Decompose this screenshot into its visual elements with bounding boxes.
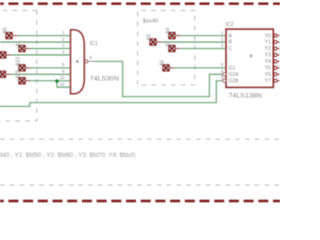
svg-text:11: 11 xyxy=(60,75,65,80)
connector cross A4 xyxy=(169,33,175,39)
IC2 74LS138N box xyxy=(226,29,273,87)
svg-text:Y3: Y3 xyxy=(265,53,271,59)
svg-text:A15: A15 xyxy=(16,70,22,79)
svg-text:Y0: Y0 xyxy=(265,33,271,39)
wire from left edge to IC2 G2B xyxy=(0,81,223,107)
frame border top (dark red dashed) xyxy=(0,3,280,5)
IC2 right pin names Y0-Y7 xyxy=(265,33,271,84)
IC2 origin cross xyxy=(249,54,252,57)
IC2 left pin names xyxy=(229,33,240,84)
svg-text:$xx40: $xx40 xyxy=(143,18,158,24)
module frame box 2 (gray dashed, right group) xyxy=(138,10,195,85)
frame border bottom (dark red dashed) xyxy=(0,200,280,202)
connector cross A8 xyxy=(6,33,12,39)
svg-text:A13: A13 xyxy=(16,57,22,66)
IC1 origin cross xyxy=(76,60,79,63)
connector cross A1 xyxy=(19,45,25,51)
wire A6 to IC2 pin6 G1 xyxy=(169,67,175,69)
IC2 G2B input bubble (pin 5) xyxy=(223,79,226,82)
module frame box 1 (gray dashed, left group) xyxy=(0,10,37,121)
svg-text:74LS138N: 74LS138N xyxy=(229,92,262,99)
svg-text:d40 ; Y1: $fd50 ; Y2: $fd60 ;: d40 ; Y1: $fd50 ; Y2: $fd60 ; Y3: $fd70;… xyxy=(0,152,137,159)
svg-text:A5: A5 xyxy=(147,34,153,40)
wire net A1 to IC1 pin3 xyxy=(25,48,31,50)
svg-text:G2A: G2A xyxy=(229,72,240,78)
svg-text:Y6: Y6 xyxy=(265,72,271,78)
connector cross A6 xyxy=(163,65,169,71)
section divider dashed line 1 xyxy=(0,138,280,140)
section divider dashed line 2 xyxy=(0,184,280,186)
wire branch junction to IC1 pin12 xyxy=(57,81,71,87)
svg-text:Y7: Y7 xyxy=(265,79,271,85)
wire net to IC1 pin6 xyxy=(6,73,12,75)
IC2 pin numbers left xyxy=(221,30,224,80)
svg-text:G2B: G2B xyxy=(229,79,240,85)
svg-text:G1: G1 xyxy=(229,66,236,72)
wire IC1 output to IC2 G2A xyxy=(95,61,223,96)
svg-text:A8: A8 xyxy=(3,27,9,33)
svg-text:A4: A4 xyxy=(166,27,172,33)
junction dot xyxy=(55,79,58,82)
wire A4 to IC2 pin1 xyxy=(175,35,181,37)
svg-text:A6: A6 xyxy=(160,60,166,66)
wire A5 to IC2 pin2 xyxy=(156,41,162,43)
connector cross (left edge, row4) xyxy=(0,52,6,58)
svg-text:Y1: Y1 xyxy=(265,40,271,46)
svg-text:A7: A7 xyxy=(166,40,172,46)
svg-text:IC2: IC2 xyxy=(226,22,234,28)
wire net A13 to IC1 pin5 xyxy=(25,67,31,69)
connector cross A5 xyxy=(150,39,156,45)
svg-text:74LS30N: 74LS30N xyxy=(90,75,119,82)
wire net A15 to IC1 pin11 xyxy=(25,80,31,82)
op-gate IC1 74LS30N (8-input NAND) body xyxy=(71,30,85,94)
svg-text:IC1: IC1 xyxy=(90,41,98,47)
IC2 output bubbles and stubs Y0-Y7 xyxy=(274,34,280,82)
connector cross A7 xyxy=(169,45,175,51)
connector cross (left edge, row6) xyxy=(0,71,5,77)
svg-text:Y4: Y4 xyxy=(265,59,271,65)
svg-text:12: 12 xyxy=(60,82,65,87)
IC2 G2A input bubble (pin 4) xyxy=(223,73,226,76)
svg-text:Y5: Y5 xyxy=(265,66,271,72)
svg-text:Y2: Y2 xyxy=(265,46,271,52)
connector cross A15 xyxy=(19,78,25,84)
IC1 pin numbers xyxy=(60,30,65,87)
wire A7 to IC2 pin3 xyxy=(175,48,181,50)
IC1 output bubble pin 8 xyxy=(85,60,88,63)
wire net A8 to IC1 pin1 xyxy=(12,35,18,37)
wire net to IC1 pin2 (from left edge) xyxy=(0,41,71,43)
svg-text:A1: A1 xyxy=(16,40,22,46)
wire net to IC1 pin4 xyxy=(6,54,12,56)
connector cross A13 xyxy=(19,65,25,71)
svg-text:C: C xyxy=(229,46,233,52)
